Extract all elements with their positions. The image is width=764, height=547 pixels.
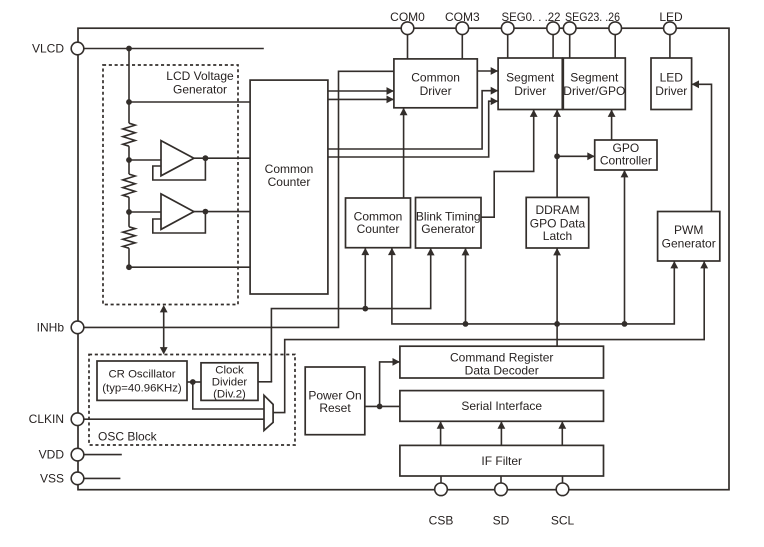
wire SEG0 stub: [507, 28, 509, 58]
wire buffer1 input: [129, 159, 161, 161]
block Command Register Data Decoder: [400, 346, 604, 378]
block GPO Controller: [595, 140, 657, 170]
svg-text:COM3: COM3: [445, 10, 480, 24]
svg-text:Command Register: Command Register: [450, 351, 553, 365]
wire buffer2 feedback loop: [153, 212, 206, 233]
svg-text:CSB: CSB: [429, 514, 454, 528]
svg-text:Segment: Segment: [506, 71, 555, 85]
wire SEG26 stub: [614, 28, 616, 58]
pin VSS: [71, 472, 84, 485]
op-amp buffer A1: [161, 141, 194, 176]
wire VLCD horizontal: [78, 48, 264, 50]
wire SCL stub: [562, 476, 564, 489]
wire PWM Generator to LED Driver: [692, 84, 712, 211]
pin CSB: [435, 483, 448, 496]
node bus A junction: [362, 306, 368, 312]
wire SEG22 stub: [552, 28, 554, 58]
wire COM0 stub: [407, 28, 409, 59]
wire Common Counter to Segment Driver 1: [328, 91, 498, 149]
dashed group OSC Block: [89, 355, 295, 446]
svg-text:COM0: COM0: [390, 10, 425, 24]
block DDRAM GPO Data Latch: [526, 197, 589, 248]
pin VDD: [71, 448, 84, 461]
wire bus B branch to Blink Timing Generator: [465, 248, 467, 324]
svg-text:Controller: Controller: [600, 154, 652, 168]
wire Command Register to DDRAM latch: [556, 248, 558, 346]
wire POR to Command Register: [380, 362, 400, 407]
pin COM0: [401, 22, 414, 35]
svg-text:LCD Voltage: LCD Voltage: [166, 69, 234, 83]
svg-text:Driver: Driver: [420, 84, 452, 98]
wire inter-block double arrow: [163, 310, 165, 350]
svg-text:Segment: Segment: [570, 71, 619, 85]
wire buffer2 output: [194, 211, 250, 213]
wire GPO Controller bottom feed: [624, 170, 626, 324]
block Blink Timing Generator: [416, 198, 482, 249]
svg-text:CR Oscillator: CR Oscillator: [108, 368, 175, 380]
svg-text:LED: LED: [659, 10, 683, 24]
wire CR Oscillator to Clock Divider: [187, 381, 201, 383]
block Common Driver: [394, 59, 477, 108]
node top tap junction: [126, 99, 132, 105]
pin VLCD: [71, 42, 84, 55]
svg-text:IF Filter: IF Filter: [481, 454, 522, 468]
block Segment Driver: [498, 58, 562, 110]
svg-text:Generator: Generator: [173, 83, 227, 97]
pin SEG23..26 left: [563, 22, 576, 35]
node DDRAM-GPO branch junction: [554, 153, 560, 159]
wire resistor-ladder rail: [128, 49, 130, 124]
pin SEG0..22 right: [547, 22, 560, 35]
wire data bus B: [392, 248, 674, 324]
svg-text:CLKIN: CLKIN: [29, 412, 64, 426]
svg-text:SEG23. .26: SEG23. .26: [565, 10, 620, 24]
wire bottom tap to Common Counter: [129, 266, 250, 268]
pin SCL: [556, 483, 569, 496]
pin CLKIN: [71, 413, 84, 426]
block Common Counter (main): [250, 80, 328, 294]
wire branch to GPO Controller input: [557, 155, 595, 157]
wire buffer1 output: [194, 157, 250, 159]
svg-text:Driver: Driver: [514, 84, 546, 98]
wire Blink Timing Generator to Segment Driver: [481, 110, 534, 218]
block Common Counter (secondary): [346, 198, 411, 248]
svg-text:Common: Common: [265, 162, 314, 176]
svg-text:Driver: Driver: [655, 84, 687, 98]
wire clock bus A: [271, 248, 430, 382]
pin LED: [664, 22, 677, 35]
svg-text:VLCD: VLCD: [32, 42, 64, 56]
wire IF Filter to Serial Interface 2: [500, 421, 502, 445]
node buffer1 output junction: [203, 155, 209, 161]
svg-text:Data Decoder: Data Decoder: [465, 364, 539, 378]
pin SEG23..26 right: [609, 22, 622, 35]
node bus B junction at x557: [554, 321, 560, 327]
node oscillator output junction: [190, 379, 196, 385]
svg-text:Counter: Counter: [268, 175, 311, 189]
wire Common Driver to Segment Driver: [477, 70, 498, 72]
mux clock selector: [264, 395, 273, 430]
wire SEG23 stub: [569, 28, 571, 58]
wire oscillator bypass to mux: [193, 382, 264, 409]
block CR Oscillator: [97, 361, 187, 400]
wire VSS stub: [78, 477, 120, 479]
block Segment Driver/GPO: [563, 58, 625, 110]
pin INHb: [71, 321, 84, 334]
svg-text:DDRAM: DDRAM: [535, 203, 579, 217]
wire clock bus C from mux to PWM: [273, 261, 704, 413]
wire IF Filter to Serial Interface 3: [561, 421, 563, 445]
wire IF Filter to Serial Interface 1: [440, 421, 442, 445]
svg-text:(typ=40.96KHz): (typ=40.96KHz): [102, 382, 182, 394]
wire SD stub: [500, 476, 502, 489]
svg-text:SEG0. . .22: SEG0. . .22: [502, 10, 561, 24]
svg-text:OSC Block: OSC Block: [98, 430, 158, 444]
wire buffer1 feedback loop: [153, 158, 206, 180]
op-amp buffer A2: [161, 194, 194, 230]
wire Common Counter to Segment Driver 2: [328, 101, 498, 157]
block LED Driver: [651, 58, 692, 110]
svg-text:Reset: Reset: [319, 401, 351, 415]
node POR output junction: [377, 404, 383, 410]
block IF Filter: [400, 445, 604, 476]
svg-text:INHb: INHb: [37, 320, 65, 334]
svg-text:Counter: Counter: [357, 222, 400, 236]
wire GPO Controller to Segment Driver/GPO: [611, 110, 613, 141]
svg-text:LED: LED: [660, 71, 684, 85]
resistor R3: [123, 227, 135, 248]
chip outline border: [78, 28, 729, 490]
node VLCD rail junction: [126, 46, 132, 52]
block PWM Generator: [658, 212, 720, 262]
node bottom tap junction: [126, 264, 132, 270]
svg-text:VSS: VSS: [40, 471, 64, 485]
wire Common Counter2 to Common Driver: [403, 108, 405, 198]
pin SD: [495, 483, 508, 496]
wire Common Counter to Common Driver 2: [328, 98, 394, 100]
svg-text:Driver/GPO: Driver/GPO: [563, 84, 625, 98]
wire buffer2 input: [129, 211, 161, 213]
svg-text:PWM: PWM: [674, 223, 703, 237]
pin COM3: [456, 22, 469, 35]
svg-text:Common: Common: [411, 71, 460, 85]
wire Power On Reset output: [365, 405, 400, 407]
svg-text:SCL: SCL: [551, 514, 575, 528]
node bus B junction at x465: [463, 321, 469, 327]
wire INHb to Common Driver: [78, 71, 394, 327]
resistor R2: [123, 174, 135, 197]
wire bus A branch to Common Counter2: [364, 248, 366, 309]
pin SEG0..22 left: [501, 22, 514, 35]
block Clock Divider: [201, 363, 258, 401]
wire CLKIN to mux: [78, 418, 264, 420]
svg-text:(Div.2): (Div.2): [213, 388, 246, 400]
svg-text:Clock: Clock: [215, 364, 244, 376]
svg-text:Generator: Generator: [421, 222, 475, 236]
resistor R1: [123, 123, 135, 146]
svg-text:SD: SD: [493, 514, 510, 528]
block Serial Interface: [400, 391, 604, 422]
block Power On Reset: [305, 367, 365, 435]
wire Clock Divider output to bus A riser: [258, 381, 272, 383]
wire DDRAM latch to Segment Driver: [556, 110, 558, 198]
svg-text:Generator: Generator: [662, 236, 716, 250]
svg-text:Divider: Divider: [212, 376, 248, 388]
node buffer2 output junction: [203, 209, 209, 215]
svg-text:VDD: VDD: [39, 448, 65, 462]
svg-text:Latch: Latch: [543, 229, 572, 243]
node buffer2 input junction: [126, 209, 132, 215]
wire CSB stub: [440, 476, 442, 489]
node bus B junction at x624: [622, 321, 628, 327]
svg-text:Serial Interface: Serial Interface: [461, 399, 542, 413]
wire top tap to Common Counter: [129, 101, 250, 103]
node buffer1 input junction: [126, 157, 132, 163]
dashed group LCD Voltage Generator: [103, 65, 238, 305]
wire LED stub: [669, 28, 671, 58]
wire COM3 stub: [461, 28, 463, 59]
wire VDD stub: [78, 454, 122, 456]
wire Common Counter to Common Driver 1: [328, 90, 394, 92]
